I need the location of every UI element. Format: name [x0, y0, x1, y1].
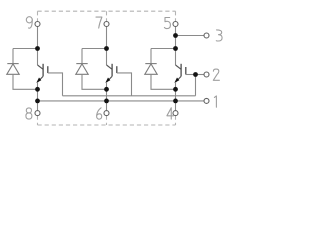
- terminal 4: [173, 111, 178, 116]
- transistor Q2 (IGBT) collector diagonal: [107, 65, 113, 69]
- terminal 5: [173, 22, 178, 27]
- transistor Q2 emitter diagonal: [107, 76, 113, 82]
- label 8: [26, 108, 32, 119]
- label 2: [213, 69, 219, 80]
- node: emitter junction Q2: [104, 87, 109, 92]
- label 4: [167, 108, 174, 119]
- label 3: [216, 30, 222, 41]
- wire: diode D2 anode to emitter node: [82, 74, 107, 89]
- transistor Q3 emitter diagonal: [176, 76, 182, 82]
- diode D1: [7, 64, 19, 75]
- label 5: [164, 18, 170, 29]
- wire: emitter lead Q2 down to terminal 6: [106, 82, 108, 111]
- wire: diode D2 cathode branch: [82, 49, 107, 64]
- transistor Q3 body bar: [180, 64, 182, 77]
- diode D3: [145, 64, 157, 75]
- wire: emitter lead Q1 down to terminal 8: [37, 82, 39, 111]
- wire: gate lead Q2 to gate bus: [117, 73, 132, 96]
- module outline: top dashed edge: [38, 11, 176, 21]
- node: collector junction Q3: [173, 46, 178, 51]
- label 7: [96, 17, 102, 28]
- transistor Q2 gate bar: [116, 66, 118, 73]
- transistor Q1 emitter arrow: [36, 78, 41, 83]
- transistor Q3 (IGBT) collector diagonal: [176, 65, 182, 69]
- transistor Q1 body bar: [42, 64, 44, 77]
- wire: collector bus Q3 to terminal 3: [176, 35, 205, 37]
- terminal 3: [204, 33, 209, 38]
- wire: terminal 9 lead / collector lead Q1: [37, 27, 39, 66]
- wire: terminal 5 lead / collector lead Q3: [175, 27, 177, 66]
- terminal 1: [204, 98, 209, 103]
- module outline: bottom dashed edge: [38, 116, 176, 125]
- terminal 7: [104, 22, 109, 27]
- node: emitter bus junction col3: [173, 99, 178, 104]
- wire: terminal 2 lead: [196, 74, 205, 76]
- diode D2: [76, 64, 88, 75]
- terminal 6: [104, 111, 109, 116]
- wire: diode D1 cathode branch: [13, 49, 38, 64]
- terminal 2: [204, 72, 209, 77]
- wire: gate lead Q1 to gate bus: [48, 73, 63, 96]
- node: terminal 3 bus junction: [173, 33, 178, 38]
- terminal 9: [35, 22, 40, 27]
- transistor Q1 gate bar: [47, 66, 49, 73]
- node: collector junction Q2: [104, 46, 109, 51]
- node: collector junction Q1: [35, 46, 40, 51]
- transistor Q3 gate bar: [185, 67, 187, 75]
- node: emitter bus junction col2: [104, 99, 109, 104]
- label 6: [97, 108, 102, 119]
- node: emitter junction Q3: [173, 87, 178, 92]
- terminal 8: [35, 111, 40, 116]
- wire: gate lead Q3 to terminal 2 node: [186, 74, 196, 76]
- transistor Q2 body bar: [111, 64, 113, 77]
- node: emitter bus junction col1: [35, 99, 40, 104]
- wire: diode D3 anode to emitter node: [151, 74, 176, 89]
- wire: emitter bus to terminal 1: [38, 100, 205, 102]
- label 9: [26, 17, 32, 28]
- wire: terminal 7 lead / collector lead Q2: [106, 27, 108, 66]
- wire: diode D3 cathode branch: [151, 49, 176, 64]
- transistor Q2 emitter arrow: [105, 78, 110, 83]
- transistor Q1 emitter diagonal: [38, 76, 44, 82]
- node: gate bus junction at terminal 2: [193, 72, 198, 77]
- wire: emitter lead Q3 down to terminal 4: [175, 82, 177, 111]
- transistor Q3 emitter arrow: [174, 78, 179, 83]
- label 1: [214, 96, 216, 107]
- transistor Q1 (IGBT) collector diagonal: [38, 65, 44, 69]
- wire: diode D1 anode to emitter node: [13, 74, 38, 89]
- node: emitter junction Q1: [35, 87, 40, 92]
- wire: gate bus: [63, 75, 196, 96]
